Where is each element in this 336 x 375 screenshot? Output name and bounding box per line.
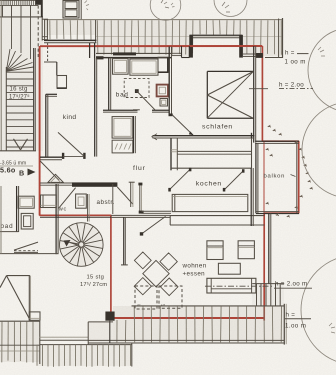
svg-text:kind: kind [63, 114, 77, 121]
svg-text:flur: flur [133, 165, 146, 172]
svg-text:h = 2.oo: h = 2.oo [279, 82, 304, 89]
svg-text:wc: wc [58, 207, 67, 213]
svg-text:16 stg: 16 stg [10, 87, 28, 93]
svg-text:17⁵/27⁵: 17⁵/27⁵ [9, 94, 30, 101]
svg-text:+essen: +essen [183, 270, 206, 277]
svg-text:bad: bad [116, 91, 129, 98]
svg-text:17⁵/ 27cm: 17⁵/ 27cm [80, 281, 107, 288]
svg-text:1 oo m: 1 oo m [285, 59, 306, 66]
svg-text:schlafen: schlafen [202, 124, 233, 131]
svg-text:abstr.: abstr. [97, 199, 115, 206]
svg-text:wohnen: wohnen [182, 262, 207, 269]
svg-text:1.oo m: 1.oo m [285, 323, 306, 330]
svg-text:balkon: balkon [264, 173, 286, 179]
svg-text:kochen: kochen [196, 181, 222, 188]
svg-text:bad: bad [1, 223, 14, 230]
svg-text:15 stg: 15 stg [87, 275, 105, 281]
svg-text:h =: h = [285, 50, 295, 57]
svg-text:h =: h = [286, 312, 296, 319]
svg-text:h = 2.oo m: h = 2.oo m [275, 280, 307, 287]
svg-text:5.6o: 5.6o [0, 166, 16, 175]
svg-text:B: B [19, 169, 24, 178]
